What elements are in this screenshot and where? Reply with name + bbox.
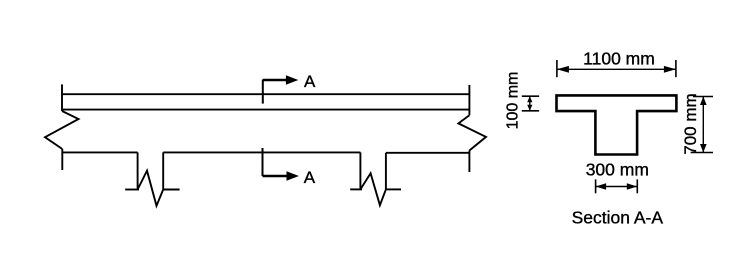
slab top line <box>62 93 469 95</box>
width dim arrow left <box>557 66 569 73</box>
left end break zigzag <box>45 111 79 149</box>
section arrow shaft top <box>263 79 287 82</box>
flange dim tick bottom <box>522 110 539 112</box>
flange dim arrow up <box>527 96 532 102</box>
depth dim tick top <box>693 96 713 98</box>
beam soffit line segment 1 <box>62 151 137 153</box>
flange dim line <box>529 96 531 111</box>
column break 1 right tick <box>163 189 179 191</box>
web dim extension right <box>636 179 638 193</box>
left end vertical (upper) <box>61 84 63 111</box>
column break 1 right edge <box>162 152 164 189</box>
column break 1 left tick <box>125 189 139 191</box>
width dim extension tick left <box>556 60 558 77</box>
flange dim tick top <box>522 95 539 97</box>
svg-text:1100 mm: 1100 mm <box>583 48 655 68</box>
svg-text:Section A-A: Section A-A <box>572 207 664 227</box>
slab bottom line <box>62 109 469 111</box>
svg-text:300 mm: 300 mm <box>586 159 649 179</box>
svg-text:A: A <box>304 72 316 91</box>
width dim extension tick right <box>675 60 677 77</box>
column break 2 zigzag <box>360 173 386 205</box>
right end vertical (upper) <box>468 85 470 115</box>
width dim arrow right <box>664 66 676 73</box>
svg-text:A: A <box>304 168 316 187</box>
web dim line <box>596 186 638 188</box>
depth dim arrow up <box>700 97 707 106</box>
column break 1 left edge <box>137 152 139 189</box>
column break 2 right tick <box>386 188 401 190</box>
svg-text:700 mm: 700 mm <box>681 93 700 154</box>
web dim extension left <box>595 179 597 193</box>
depth dim line <box>702 97 704 153</box>
right end vertical (lower) <box>468 151 470 173</box>
left end vertical (lower) <box>61 149 63 170</box>
web dim arrow left <box>596 183 607 190</box>
web dim arrow right <box>627 183 638 190</box>
section arrowhead top <box>286 75 298 85</box>
column break 2 left tick <box>350 188 362 190</box>
section arrow shaft bottom <box>263 175 288 178</box>
section arrowhead bottom <box>287 171 299 181</box>
column break 2 right edge <box>385 153 387 190</box>
right end break zigzag <box>458 115 486 150</box>
depth dim tick bottom <box>691 152 713 154</box>
section cut line bottom <box>262 148 264 176</box>
T-section outline <box>557 95 677 154</box>
depth dim arrow down <box>700 144 707 153</box>
beam soffit line segment 2 <box>163 151 360 153</box>
width dim line <box>557 68 676 70</box>
svg-text:100 mm: 100 mm <box>504 72 521 130</box>
flange dim arrow down <box>527 105 532 111</box>
beam soffit line segment 3 <box>386 152 470 154</box>
column break 2 left edge <box>359 152 361 189</box>
section cut line top <box>262 80 264 104</box>
column break 1 zigzag <box>138 171 164 206</box>
